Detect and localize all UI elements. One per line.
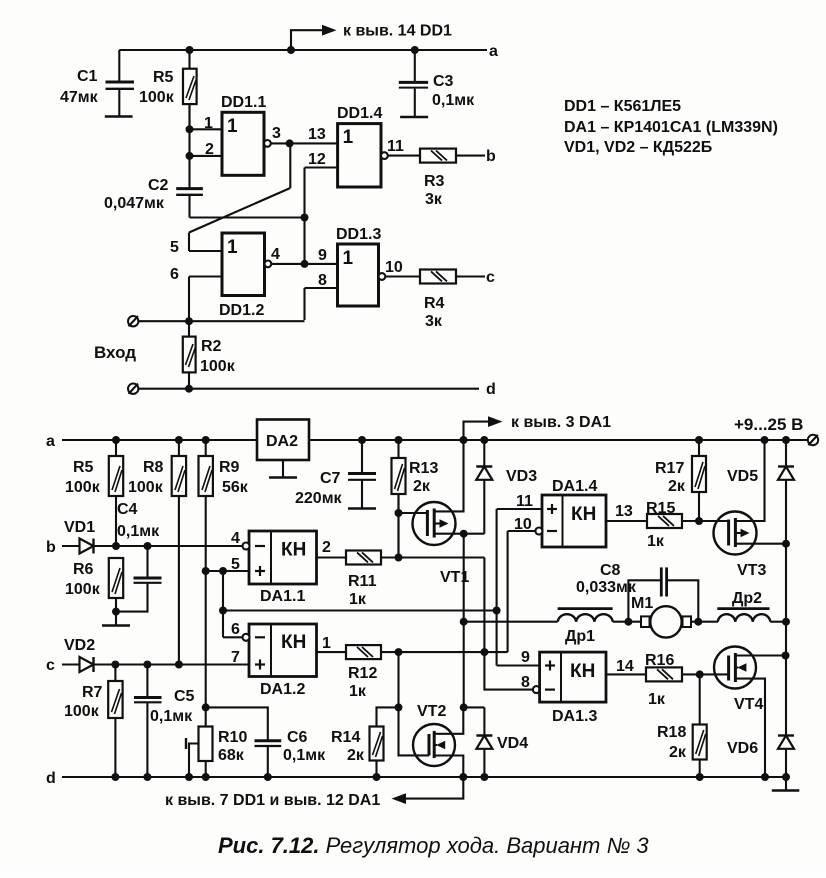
regulator DA2: [257, 420, 309, 478]
wire DD1.4 pin 12: [305, 166, 338, 168]
svg-text:11: 11: [387, 138, 404, 155]
wire to choke Dr1: [464, 621, 558, 623]
svg-text:+9...25 В: +9...25 В: [734, 415, 803, 434]
svg-text:1к: 1к: [349, 683, 367, 700]
wire VT1 gate vertical R13 to R11: [397, 494, 399, 558]
svg-text:3к: 3к: [425, 313, 443, 330]
wire R5 bottom to C2: [188, 104, 190, 189]
svg-text:10: 10: [385, 259, 403, 276]
trimmer R10: [186, 727, 213, 778]
svg-text:0,1мк: 0,1мк: [117, 523, 160, 540]
wire input to node: [138, 320, 304, 322]
junction Dr1 tap on half-bridge column: [460, 618, 468, 626]
svg-text:1: 1: [204, 115, 213, 132]
diode VD5: [778, 440, 794, 544]
wire riser pin5 to pin6: [222, 571, 224, 637]
junction wire a / VD3: [480, 436, 488, 444]
diode VD6: [778, 736, 794, 778]
choke Dr1: [558, 609, 613, 622]
svg-text:5: 5: [170, 239, 179, 256]
junction half-bridge column / VT2 drain: [460, 703, 468, 711]
inversion bubble DA1.4 pin 10: [535, 528, 542, 535]
resistor R5 (bottom): [109, 440, 123, 546]
junction wire a / VT1 drain stub: [460, 436, 468, 444]
junction VT2 gate tee: [395, 703, 403, 711]
svg-text:C4: C4: [117, 501, 138, 518]
svg-text:к выв. 7 DD1 и выв. 12 DA1: к выв. 7 DD1 и выв. 12 DA1: [165, 792, 380, 809]
svg-text:2: 2: [205, 141, 214, 158]
inversion bubble DA1.1 pin 4: [243, 543, 250, 550]
svg-text:DD1.1: DD1.1: [221, 94, 266, 111]
wire DA1.2 output 1: [317, 651, 347, 653]
resistor R14: [370, 727, 384, 778]
svg-text:R12: R12: [348, 665, 377, 682]
junction input/R2: [185, 317, 193, 325]
resistor R18: [693, 674, 707, 777]
gate DD1.3: [338, 244, 379, 306]
wire DA1.1 pin 5: [206, 570, 249, 572]
wire output 11 to R3: [388, 155, 420, 157]
svg-text:9: 9: [318, 247, 327, 264]
junction riser / reference wire: [493, 607, 501, 615]
svg-text:C7: C7: [320, 470, 341, 487]
svg-text:R17: R17: [655, 460, 684, 477]
svg-text:220мк: 220мк: [295, 490, 343, 507]
inversion bubble DD1.4 output 11: [381, 152, 388, 159]
svg-text:Др2: Др2: [732, 590, 762, 607]
diode VD1: [62, 539, 242, 554]
svg-text:100к: 100к: [200, 358, 236, 375]
svg-text:1: 1: [227, 116, 238, 137]
wire reference node to comparators: [223, 609, 497, 611]
junction R2/wire d: [185, 385, 193, 393]
resistor R13: [392, 440, 406, 558]
svg-text:1к: 1к: [349, 591, 367, 608]
svg-text:a: a: [46, 433, 55, 450]
transistor VT3: [714, 440, 787, 555]
svg-text:100к: 100к: [65, 479, 101, 496]
svg-text:Вход: Вход: [94, 343, 136, 362]
comparator DA1.1: [249, 531, 317, 584]
junction wire d / VT4 source: [761, 773, 769, 781]
junction R12 wire / VT2 gate drop: [395, 648, 403, 656]
wire stub to pin 14 DD1 with arrow: [291, 25, 337, 50]
wire b output (top): [456, 155, 485, 157]
junction wire d / R14: [373, 773, 381, 781]
svg-text:0,1мк: 0,1мк: [283, 747, 326, 764]
resistor R5 (top section): [183, 50, 197, 129]
svg-text:C8: C8: [600, 562, 621, 579]
svg-text:R2: R2: [201, 338, 222, 355]
resistor R15: [647, 514, 682, 528]
wire half-bridge node to VD4: [464, 706, 485, 708]
wire DD1.2 pin 6: [189, 275, 222, 277]
svg-text:VT4: VT4: [734, 696, 763, 713]
svg-text:КН: КН: [570, 661, 595, 682]
wire DA1.4 output 13: [606, 520, 647, 522]
svg-text:68к: 68к: [218, 747, 245, 764]
svg-text:DD1.2: DD1.2: [219, 302, 264, 319]
junction wire d / C6: [264, 773, 272, 781]
comparator DA1.3: [540, 652, 606, 702]
svg-text:13: 13: [308, 126, 326, 143]
capacitor C5: [134, 665, 162, 778]
junction wire a / R8: [175, 436, 183, 444]
svg-text:R9: R9: [219, 459, 240, 476]
resistor R17: [692, 440, 706, 521]
wire DA1.4 pin 10: [508, 530, 536, 532]
junction R18 / VT4 gate: [696, 670, 704, 678]
wire to pin 7 DD1 and pin 12 DA1 with arrow: [392, 777, 464, 804]
wire d (bottom common rail): [62, 776, 786, 778]
svg-text:DD1.3: DD1.3: [336, 226, 381, 243]
svg-text:13: 13: [615, 503, 633, 520]
diode VD3: [476, 440, 492, 534]
svg-text:12: 12: [308, 151, 326, 168]
wire output column: [785, 544, 787, 736]
wire feedback vertical from node 3: [289, 143, 291, 188]
svg-text:c: c: [486, 269, 495, 286]
svg-text:100к: 100к: [64, 703, 100, 720]
svg-text:R7: R7: [82, 684, 103, 701]
inversion bubble DD1.1 output 3: [264, 140, 271, 147]
svg-text:C3: C3: [433, 73, 454, 90]
svg-text:Рис. 7.12. Регулятор хода. Вар: Рис. 7.12. Регулятор хода. Вариант № 3: [218, 833, 649, 858]
wire gate net down to pin 8: [484, 558, 533, 690]
svg-text:2: 2: [322, 539, 331, 556]
motor M1: [641, 606, 691, 637]
svg-text:1: 1: [343, 248, 354, 269]
svg-text:6: 6: [231, 621, 240, 638]
junction R10 top / C6 branch: [202, 703, 210, 711]
wire DA1.3 output 14: [606, 673, 646, 675]
svg-text:7: 7: [231, 649, 240, 666]
wire DD1.3 pin 8: [305, 287, 338, 289]
resistor R9: [199, 440, 213, 571]
junction wire a / R17: [695, 436, 703, 444]
svg-text:b: b: [486, 148, 496, 165]
capacitor C4: [116, 546, 162, 612]
wire VT2 gate drop from R12: [397, 652, 399, 707]
junction R5/pin1: [186, 125, 194, 133]
svg-text:4: 4: [271, 246, 280, 263]
svg-text:КН: КН: [281, 632, 306, 653]
junction wire d / R10: [202, 773, 210, 781]
svg-text:DA2: DA2: [266, 433, 298, 450]
wire R11 to VT1 gate net: [381, 556, 484, 558]
junction wire a / R9: [202, 436, 210, 444]
svg-text:R10: R10: [218, 729, 247, 746]
junction pin5/pin6 riser: [219, 567, 227, 575]
resistor R7: [108, 665, 122, 778]
junction wire a / R13: [395, 436, 403, 444]
transistor VT4: [714, 647, 786, 778]
junction wire d / R18: [696, 773, 704, 781]
junction R12 wire / pin8 riser: [480, 648, 488, 656]
svg-text:100к: 100к: [139, 89, 175, 106]
junction output 4 node: [301, 260, 309, 268]
svg-text:d: d: [46, 770, 56, 787]
wire R16 to VT4 gate: [682, 673, 729, 675]
svg-text:VD3: VD3: [506, 468, 537, 485]
input terminal top: [128, 316, 138, 326]
svg-text:М1: М1: [631, 595, 653, 612]
junction wire b / R5 R6: [112, 542, 120, 550]
capacitor C7: [348, 440, 376, 509]
junction wire a / VT3 drain: [761, 436, 769, 444]
junction R13 / R11 wire: [395, 554, 403, 562]
resistor R16: [646, 667, 682, 681]
svg-text:VD4: VD4: [497, 735, 528, 752]
wire vertical pin12 to output4 node: [303, 168, 305, 264]
wire stub to pin 3 DA1 with arrow: [464, 416, 503, 440]
input terminal bottom: [128, 384, 138, 394]
svg-text:a: a: [489, 43, 498, 60]
svg-text:DA1.1: DA1.1: [260, 588, 305, 605]
capacitor C3: [399, 50, 428, 117]
svg-text:R18: R18: [657, 724, 686, 741]
wire output 10 to R4: [385, 275, 420, 277]
svg-text:1к: 1к: [647, 533, 665, 550]
wire c output (top): [456, 275, 485, 277]
comparator DA1.2: [249, 624, 317, 677]
junction wire c / R8: [175, 661, 183, 669]
junction pin2: [186, 152, 194, 160]
svg-text:6: 6: [170, 266, 179, 283]
junction wire a / C7: [358, 436, 366, 444]
svg-text:1к: 1к: [648, 691, 666, 708]
wire pin10 riser to R12 net: [507, 531, 509, 652]
svg-text:DA1 – КР1401СА1 (LM339N): DA1 – КР1401СА1 (LM339N): [564, 119, 778, 136]
inversion bubble DA1.2 pin 6: [243, 634, 250, 641]
svg-text:c: c: [46, 657, 55, 674]
svg-text:R6: R6: [73, 561, 94, 578]
svg-text:2к: 2к: [413, 478, 431, 495]
svg-text:47мк: 47мк: [60, 89, 99, 106]
svg-text:1: 1: [227, 237, 238, 258]
svg-text:100к: 100к: [128, 479, 164, 496]
svg-text:R4: R4: [424, 295, 445, 312]
svg-text:R3: R3: [424, 173, 445, 190]
svg-text:2к: 2к: [669, 744, 687, 761]
junction R9 chain / pin5: [202, 567, 210, 575]
svg-text:3: 3: [272, 125, 281, 142]
diode VD2: [62, 657, 249, 672]
svg-text:DA1.2: DA1.2: [260, 681, 305, 698]
svg-text:3к: 3к: [425, 191, 443, 208]
svg-text:КН: КН: [281, 540, 306, 561]
junction C2 wire: [301, 214, 309, 222]
junction R13 / VT1 gate: [395, 509, 403, 517]
svg-text:VT3: VT3: [737, 562, 766, 579]
wire a (bottom power rail): [62, 439, 808, 441]
resistor R11: [346, 551, 381, 565]
svg-text:VT2: VT2: [417, 703, 446, 720]
svg-text:VT1: VT1: [440, 569, 469, 586]
svg-text:C5: C5: [174, 688, 195, 705]
svg-text:DD1 – К561ЛЕ5: DD1 – К561ЛЕ5: [564, 98, 681, 115]
inversion bubble DA1.3 pin 8: [533, 686, 540, 693]
capacitor C6: [206, 707, 282, 777]
svg-text:Др1: Др1: [565, 628, 595, 645]
gate DD1.1: [222, 112, 264, 175]
svg-text:2к: 2к: [668, 478, 686, 495]
resistor R8: [172, 440, 186, 665]
wire output 4 to DD1.3 pin 9: [271, 263, 337, 265]
inversion bubble DD1.3 output 10: [379, 273, 386, 280]
junction wire d / C5: [143, 773, 151, 781]
transistor VT2: [399, 707, 464, 777]
junction motor / C8 right: [694, 618, 702, 626]
junction on wire a at C3: [411, 46, 419, 54]
svg-text:R11: R11: [348, 573, 377, 590]
resistor R12: [346, 645, 381, 659]
wire DD1.2 pin 5 stub: [189, 250, 222, 252]
svg-text:R5: R5: [153, 69, 174, 86]
junction wire d / VD6: [782, 773, 790, 781]
choke Dr2: [717, 609, 786, 622]
ground bar bottom right: [772, 777, 800, 791]
wire pin8 riser: [303, 288, 305, 320]
junction wire a / R5: [112, 436, 120, 444]
gate DD1.2: [222, 233, 265, 296]
wire DA1.2 pin 6: [223, 636, 243, 638]
wire pin11/pin9 riser: [496, 509, 498, 666]
wire half-bridge column: [463, 534, 465, 708]
svg-text:C2: C2: [148, 177, 169, 194]
svg-text:11: 11: [516, 493, 533, 510]
junction riser / reference wire: [219, 607, 227, 615]
svg-text:R16: R16: [645, 652, 674, 669]
svg-text:C6: C6: [287, 729, 308, 746]
capacitor C1: [105, 50, 134, 117]
wire output 3: [271, 142, 290, 144]
wire Dr1 to motor: [613, 621, 641, 623]
diode VD4: [476, 707, 492, 777]
svg-text:b: b: [46, 539, 56, 556]
svg-text:9: 9: [521, 649, 530, 666]
junction wire d / R7: [111, 773, 119, 781]
wire to DD1.1 pin 2: [190, 155, 223, 157]
svg-text:1: 1: [343, 127, 354, 148]
svg-text:2к: 2к: [347, 747, 365, 764]
svg-text:4: 4: [231, 530, 240, 547]
svg-text:DD1.4: DD1.4: [337, 105, 382, 122]
svg-text:R13: R13: [409, 460, 438, 477]
junction VT3 source / output column: [782, 540, 790, 548]
junction R17 / VT3 gate: [695, 517, 703, 525]
svg-text:C1: C1: [77, 68, 98, 85]
resistor R6: [102, 558, 130, 626]
svg-text:0,1мк: 0,1мк: [150, 708, 193, 725]
junction wire d / VD4: [480, 773, 488, 781]
junction wire d / R10 wiper: [185, 773, 193, 781]
svg-text:R14: R14: [331, 729, 360, 746]
wire d (top): [138, 388, 479, 390]
wire pin6 down to input node: [188, 277, 190, 321]
svg-text:VD2: VD2: [64, 637, 95, 654]
junction wire a / VD5: [782, 436, 790, 444]
svg-text:VD1: VD1: [64, 519, 95, 536]
transistor VT1: [399, 440, 485, 545]
wire gate tee to R14: [377, 707, 399, 726]
svg-text:1: 1: [322, 635, 331, 652]
resistor R2: [183, 321, 196, 389]
svg-text:0,047мк: 0,047мк: [104, 195, 165, 212]
wire C2 to crossover node: [190, 216, 305, 218]
svg-text:5: 5: [231, 556, 240, 573]
svg-text:0,033мк: 0,033мк: [576, 579, 637, 596]
junction wire c / R7: [111, 661, 119, 669]
svg-text:DA1.3: DA1.3: [552, 708, 597, 725]
gate DD1.4: [338, 124, 381, 187]
svg-text:VD6: VD6: [727, 740, 758, 757]
svg-text:10: 10: [514, 516, 532, 533]
svg-text:R5: R5: [73, 459, 94, 476]
svg-text:R15: R15: [646, 500, 675, 517]
svg-text:d: d: [486, 381, 496, 398]
svg-text:КН: КН: [571, 504, 596, 525]
svg-text:к выв. 14 DD1: к выв. 14 DD1: [343, 23, 452, 40]
junction on wire a at arrow stub: [287, 46, 295, 54]
resistor R4: [420, 270, 456, 284]
svg-text:14: 14: [616, 658, 634, 675]
svg-text:VD5: VD5: [727, 468, 758, 485]
svg-text:8: 8: [521, 674, 530, 691]
capacitor C8 across motor: [628, 567, 698, 621]
wire DA1.1 output 2: [317, 556, 347, 558]
svg-text:8: 8: [318, 272, 327, 289]
svg-text:DA1.4: DA1.4: [552, 478, 597, 495]
wire diagonal feedback to DD1.2 pin 5: [189, 188, 290, 233]
wire to DD1.4 pin 13: [290, 142, 338, 144]
junction VT4 drain / output column: [782, 652, 790, 660]
inversion bubble DD1.2 output 4: [265, 261, 272, 268]
resistor R3: [420, 149, 456, 163]
junction Dr1 / C8 / motor: [624, 618, 632, 626]
svg-text:R8: R8: [143, 459, 164, 476]
junction Dr2 / output column: [782, 618, 790, 626]
wire R12 to VT2 gate net and pin 10 riser: [381, 651, 508, 653]
wire to DD1.1 pin 1: [190, 128, 223, 130]
comparator DA1.4: [542, 495, 606, 547]
wire a (top oscillator supply rail): [119, 49, 487, 51]
capacitor C2: [176, 189, 203, 218]
wire vertical to pin 5 stub: [188, 233, 190, 252]
svg-text:56к: 56к: [222, 479, 249, 496]
junction wire c / C5: [143, 661, 151, 669]
junction R6 bottom / C4: [112, 608, 120, 616]
wire R9 chain down to R10: [205, 571, 207, 727]
junction wire d / VT2 source: [459, 773, 467, 781]
wire motor to Dr2: [691, 621, 718, 623]
junction VT1 source / half-bridge column: [460, 530, 468, 538]
junction wire b / C4: [144, 542, 152, 550]
supply terminal +9...25 V: [808, 435, 818, 445]
svg-text:VD1, VD2 – КД522Б: VD1, VD2 – КД522Б: [564, 139, 712, 156]
svg-text:100к: 100к: [65, 581, 101, 598]
wire R15 to VT3 gate: [682, 520, 729, 522]
junction node output3/pin13: [286, 139, 294, 147]
svg-text:0,1мк: 0,1мк: [432, 92, 475, 109]
svg-text:к выв. 3 DA1: к выв. 3 DA1: [511, 414, 611, 431]
wire DA1.3 pin 9: [497, 664, 540, 666]
junction on wire a at R5: [186, 46, 194, 54]
wire DA1.4 pin 11: [497, 508, 542, 510]
